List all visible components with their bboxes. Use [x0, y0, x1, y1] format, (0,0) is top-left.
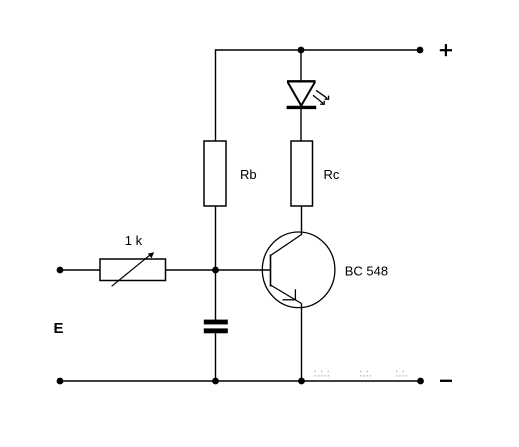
transistor Q1: emitter arrow head vertical tick	[294, 289, 296, 300]
capacitor C1: bottom plate	[204, 328, 228, 333]
LED D1: light arrow 2 shaft	[313, 95, 323, 103]
node: input terminal E upper	[57, 267, 64, 274]
transistor Q1: collector lead	[271, 235, 302, 256]
wire: Rb bottom to base node	[215, 206, 217, 270]
resistor Rb body	[204, 141, 226, 206]
node: junction capacitor / bottom rail	[212, 378, 219, 385]
node: - supply terminal	[417, 378, 424, 385]
wire: emitter down to ground rail	[301, 304, 303, 382]
watermark remnant dots	[315, 371, 408, 377]
LED D1: light arrow 1 shaft	[316, 90, 327, 98]
LED D1: triangle right side	[301, 82, 315, 106]
LED D1: light arrow 1 head	[325, 96, 329, 100]
svg-text:E: E	[54, 320, 64, 337]
svg-text:Rc: Rc	[324, 167, 340, 182]
wire: capacitor to ground rail	[215, 333, 217, 381]
node: junction top rail / LED branch	[298, 47, 305, 54]
capacitor C1: top plate	[204, 320, 228, 325]
wire: LED cathode to Rc	[300, 109, 302, 141]
wire: LED branch from top rail	[300, 50, 302, 81]
svg-text:Rb: Rb	[240, 167, 257, 182]
potentiometer R1: adjustment arrow head	[148, 252, 154, 258]
potentiometer R1: adjustment arrow shaft	[112, 254, 152, 286]
LED D1: triangle left side	[288, 82, 302, 106]
wire: base node down to capacitor	[215, 270, 217, 320]
wire: potentiometer to base node	[166, 269, 271, 271]
node: input terminal E lower	[57, 378, 64, 385]
resistor Rc body	[291, 141, 313, 206]
node: junction emitter / bottom rail	[298, 378, 305, 385]
transistor Q1: emitter lead	[271, 285, 302, 304]
node: + supply terminal	[417, 47, 424, 54]
svg-text:1 k: 1 k	[125, 233, 143, 248]
transistor Q1: base bar	[270, 255, 272, 287]
wire: input terminal to potentiometer	[60, 269, 100, 271]
wire: negative supply bottom rail	[60, 380, 421, 382]
wire: top rail down to Rb	[215, 49, 217, 141]
wire: Rc bottom to collector	[301, 206, 303, 235]
transistor Q1: emitter arrow head horizontal tick	[283, 299, 297, 301]
LED D1: anode top bar	[287, 80, 316, 82]
transistor Q1 BC548: envelope circle	[262, 232, 335, 308]
label: - symbol	[440, 380, 452, 382]
node: junction base / Rb / capacitor	[212, 267, 219, 274]
LED D1: light arrow 2 head	[320, 101, 324, 105]
potentiometer R1 1k: body	[100, 259, 166, 281]
LED D1: cathode bar	[287, 106, 317, 109]
svg-text:BC 548: BC 548	[345, 264, 388, 279]
wire: positive supply top rail	[216, 49, 421, 51]
label: + symbol	[440, 49, 452, 51]
